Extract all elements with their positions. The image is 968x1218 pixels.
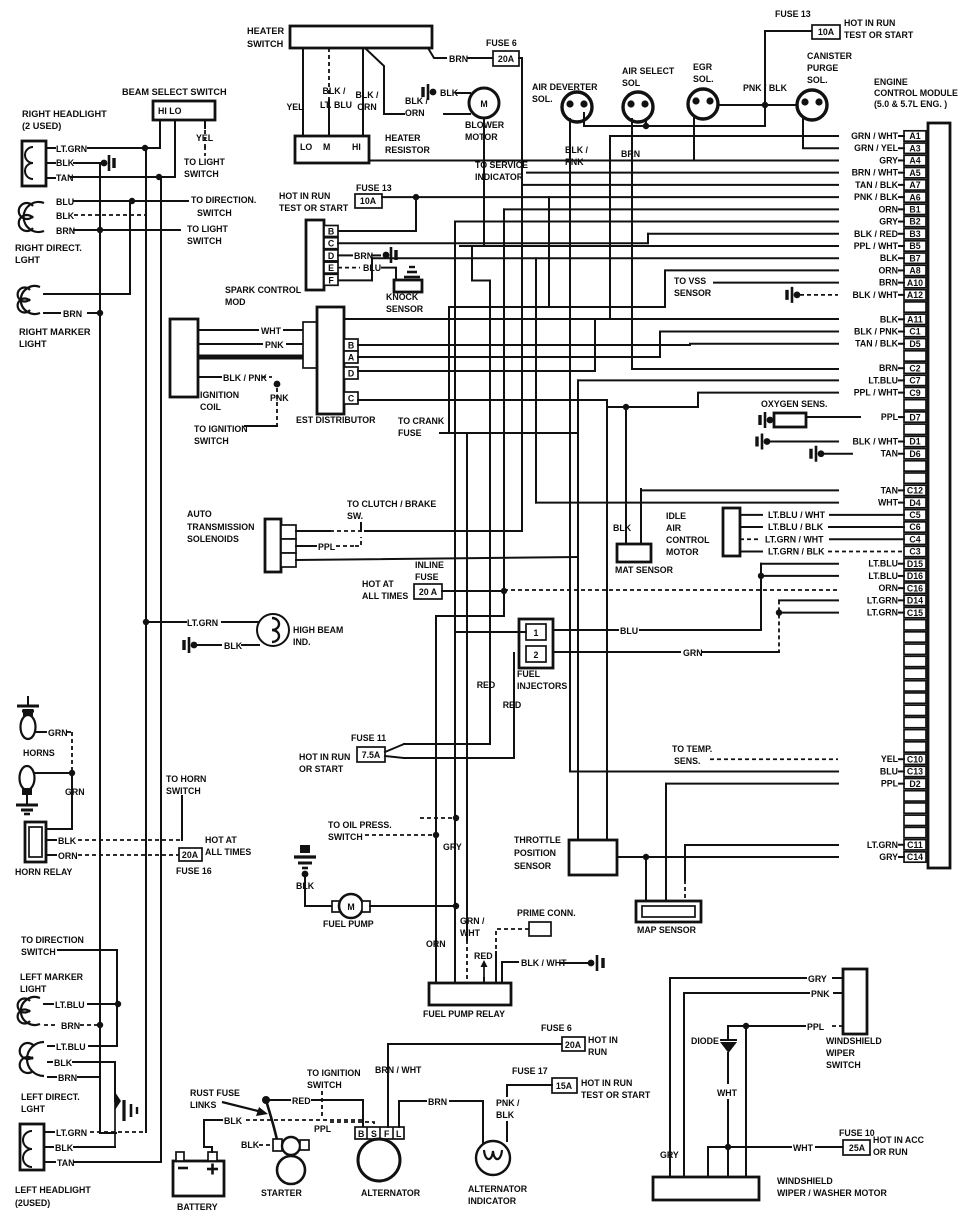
- ECM pin box row 42 blank: [904, 644, 926, 654]
- ground BLK/WHT D1: [764, 438, 771, 445]
- wire BLK to B7: [338, 279, 372, 281]
- svg-text:D15: D15: [907, 559, 923, 569]
- svg-text:CANISTER: CANISTER: [807, 51, 853, 61]
- svg-text:TO TEMP.: TO TEMP.: [672, 744, 712, 754]
- svg-text:OXYGEN SENS.: OXYGEN SENS.: [761, 399, 827, 409]
- svg-text:HOT IN ACC: HOT IN ACC: [873, 1135, 925, 1145]
- svg-text:GRY: GRY: [660, 1150, 679, 1160]
- ECM pin box row 49 blank: [904, 730, 926, 740]
- svg-text:TO SERVICE: TO SERVICE: [475, 160, 528, 170]
- svg-text:LT.BLU / BLK: LT.BLU / BLK: [768, 522, 824, 532]
- ECM pin box row 1 A3: [904, 143, 926, 153]
- svg-text:B2: B2: [909, 217, 920, 227]
- svg-text:SWITCH: SWITCH: [328, 832, 363, 842]
- wire BLK left direct to ground: [48, 1061, 52, 1063]
- svg-text:BRN: BRN: [63, 309, 82, 319]
- svg-text:RED: RED: [503, 700, 522, 710]
- svg-text:B3: B3: [909, 229, 920, 239]
- svg-text:INDICATOR: INDICATOR: [475, 172, 524, 182]
- svg-text:BRN / WHT: BRN / WHT: [852, 168, 899, 178]
- svg-text:WHT: WHT: [793, 1143, 814, 1153]
- svg-text:A7: A7: [909, 180, 920, 190]
- wire bus injector GRN x779: [778, 600, 780, 652]
- svg-text:BLK /: BLK /: [565, 145, 589, 155]
- ECM pin box row 50 blank: [904, 742, 926, 752]
- EST pin B: [344, 339, 358, 351]
- svg-text:C9: C9: [909, 388, 920, 398]
- svg-text:A: A: [348, 353, 355, 363]
- svg-text:B5: B5: [909, 241, 920, 251]
- wire PPL wiper: [830, 1025, 843, 1027]
- svg-text:TAN: TAN: [881, 449, 898, 459]
- wire BRN air select to C2: [632, 368, 838, 370]
- svg-text:GRN / YEL: GRN / YEL: [854, 143, 898, 153]
- wire WHT coil to EST: [198, 329, 258, 331]
- wire PPL/WHT to C9: [698, 393, 838, 407]
- wire TAN to C12: [641, 489, 838, 491]
- EST pin D: [344, 367, 358, 379]
- wire MAT TAN up to C12 line: [640, 489, 642, 544]
- svg-text:A5: A5: [909, 168, 920, 178]
- horn relay: [25, 822, 46, 862]
- svg-text:FUSE 10: FUSE 10: [839, 1128, 875, 1138]
- svg-text:AIR DEVERTER: AIR DEVERTER: [532, 82, 598, 92]
- svg-text:(2 USED): (2 USED): [22, 121, 61, 131]
- svg-text:E: E: [328, 263, 334, 273]
- svg-text:PNK /: PNK /: [496, 1098, 520, 1108]
- horn upper: [27, 696, 29, 706]
- left direct light: [20, 1042, 44, 1076]
- svg-text:IND.: IND.: [293, 637, 311, 647]
- svg-text:SOLENOIDS: SOLENOIDS: [187, 534, 239, 544]
- svg-text:SWITCH: SWITCH: [247, 39, 284, 49]
- ground blk/wht relay: [588, 960, 595, 967]
- ECM pin box row 19 C2: [904, 363, 926, 373]
- svg-text:BRN: BRN: [58, 1073, 77, 1083]
- wire MAT BLK up and over: [626, 407, 698, 544]
- svg-text:WIPER / WASHER MOTOR: WIPER / WASHER MOTOR: [777, 1188, 887, 1198]
- svg-text:BLK: BLK: [880, 314, 899, 324]
- svg-text:A6: A6: [909, 192, 920, 202]
- wire EST B to D5: [358, 344, 838, 345]
- wire canister purge to A3 GRN/YEL: [803, 118, 838, 148]
- svg-text:GRN / WHT: GRN / WHT: [851, 131, 899, 141]
- ECM pin box row 51 C10: [904, 754, 926, 764]
- svg-text:D: D: [328, 251, 334, 261]
- svg-text:LIGHT: LIGHT: [20, 984, 47, 994]
- alternator: [355, 1127, 404, 1139]
- wire fuse13 down to spark B pin: [338, 197, 416, 231]
- svg-text:SOL.: SOL.: [693, 74, 714, 84]
- ECM pin box row 16 C1: [904, 326, 926, 336]
- svg-text:TO CRANK: TO CRANK: [398, 416, 445, 426]
- svg-text:YEL: YEL: [196, 133, 214, 143]
- svg-text:LT.GRN: LT.GRN: [56, 144, 87, 154]
- svg-text:BLK / RED: BLK / RED: [854, 229, 898, 239]
- svg-text:SWITCH: SWITCH: [187, 236, 222, 246]
- wire WHT diode down: [727, 1053, 729, 1083]
- svg-text:RESISTOR: RESISTOR: [385, 145, 430, 155]
- svg-text:INLINE: INLINE: [415, 560, 444, 570]
- wire GRN injector 2: [553, 651, 680, 653]
- knock sensor: [394, 280, 422, 292]
- svg-text:WHT: WHT: [460, 928, 481, 938]
- svg-text:WHT: WHT: [878, 498, 899, 508]
- svg-text:WHT: WHT: [261, 326, 282, 336]
- ground stack left lights: [114, 1101, 116, 1147]
- ECM pin box row 57 blank: [904, 827, 926, 837]
- wire PNK to ignition switch: [276, 388, 278, 426]
- ECM pin box row 34 C3: [904, 546, 926, 556]
- svg-text:D6: D6: [909, 449, 920, 459]
- wire bus x467 crank to relay: [466, 433, 468, 940]
- wire blower bottom down bus x484: [483, 118, 485, 246]
- ECM pin box row 22 blank: [904, 400, 926, 410]
- svg-text:TO IGNITION: TO IGNITION: [194, 424, 248, 434]
- EST distributor: [303, 322, 317, 368]
- wire BLK/RED to B3: [647, 234, 649, 243]
- wire PNK wiper: [834, 992, 843, 994]
- ECM pin box row 17 D5: [904, 339, 926, 349]
- svg-text:BRN: BRN: [879, 278, 898, 288]
- svg-text:FUSE 17: FUSE 17: [512, 1066, 548, 1076]
- svg-text:EST DISTRIBUTOR: EST DISTRIBUTOR: [296, 415, 376, 425]
- svg-text:IDLE: IDLE: [666, 511, 686, 521]
- ECM pin box row 3 A5: [904, 167, 926, 177]
- svg-text:THROTTLE: THROTTLE: [514, 835, 561, 845]
- wire ORN to B1: [504, 208, 838, 210]
- ECM pin box row 14 blank: [904, 302, 926, 312]
- svg-text:ALTERNATOR: ALTERNATOR: [468, 1184, 528, 1194]
- wire LT.GRN/WHT to C4: [740, 538, 760, 540]
- svg-text:D7: D7: [909, 412, 920, 422]
- ECM pin box row 40 blank: [904, 620, 926, 630]
- svg-text:LT. BLU: LT. BLU: [320, 100, 352, 110]
- svg-text:ENGINE: ENGINE: [874, 77, 908, 87]
- svg-text:HORNS: HORNS: [23, 748, 55, 758]
- ECM pin box row 4 A7: [904, 180, 926, 190]
- ground fuel pump BLK: [300, 845, 310, 853]
- svg-text:BEAM SELECT SWITCH: BEAM SELECT SWITCH: [122, 87, 227, 97]
- svg-text:PNK: PNK: [565, 157, 584, 167]
- svg-text:BLK: BLK: [54, 1058, 73, 1068]
- svg-text:MAP SENSOR: MAP SENSOR: [637, 925, 697, 935]
- svg-text:(5.0 & 5.7L ENG. ): (5.0 & 5.7L ENG. ): [874, 99, 947, 109]
- svg-text:LT.BLU / WHT: LT.BLU / WHT: [768, 510, 826, 520]
- alternator indicator: [476, 1141, 510, 1175]
- svg-text:TO DIRECTION: TO DIRECTION: [21, 935, 84, 945]
- wire coil secondary thick: [198, 355, 317, 360]
- ECM pin box row 15 A11: [904, 314, 926, 324]
- wire LT.BLU left marker: [44, 1003, 53, 1005]
- svg-text:BRN: BRN: [56, 226, 75, 236]
- svg-text:B1: B1: [909, 205, 920, 215]
- svg-text:S: S: [371, 1129, 377, 1139]
- ground + BLK/WHT A12: [794, 291, 801, 298]
- ECM pin box row 48 blank: [904, 717, 926, 727]
- wire EST D to A11: [358, 319, 595, 371]
- svg-text:A1: A1: [909, 131, 920, 141]
- svg-text:RED: RED: [292, 1096, 311, 1106]
- wire HI pin down: [159, 120, 161, 148]
- wire BRN L pin to alternator indicator: [399, 1101, 426, 1127]
- wire bus x607 MAT to TPS: [606, 400, 608, 840]
- wire GRN horn upper: [36, 731, 46, 733]
- svg-text:C15: C15: [907, 608, 923, 618]
- svg-text:C1: C1: [909, 327, 920, 337]
- ECM pin box row 33 C4: [904, 534, 926, 544]
- svg-text:OR RUN: OR RUN: [873, 1147, 908, 1157]
- svg-text:FUSE 13: FUSE 13: [775, 9, 811, 19]
- svg-text:M: M: [347, 902, 354, 912]
- svg-text:F: F: [328, 275, 334, 285]
- ECM pin box row 10 B7: [904, 253, 926, 263]
- wire LT.BLU left direct: [48, 1045, 54, 1047]
- svg-text:BLK: BLK: [55, 1143, 74, 1153]
- svg-text:LT.GRN: LT.GRN: [867, 595, 898, 605]
- svg-text:WINDSHIELD: WINDSHIELD: [777, 1176, 833, 1186]
- svg-text:HORN RELAY: HORN RELAY: [15, 867, 72, 877]
- spark control pin B: [324, 226, 338, 237]
- svg-text:BRN: BRN: [879, 363, 898, 373]
- svg-text:C12: C12: [907, 486, 923, 496]
- svg-text:25A: 25A: [849, 1143, 866, 1153]
- wire WHT to D4: [535, 258, 537, 502]
- wire LT.GRN to D14: [779, 599, 838, 601]
- svg-text:SOL.: SOL.: [807, 75, 828, 85]
- svg-text:ORN: ORN: [405, 108, 425, 118]
- wire YEL heater: [302, 48, 304, 136]
- svg-text:LT.GRN: LT.GRN: [56, 1128, 87, 1138]
- wire rust fuse link diagonal: [266, 1100, 277, 1140]
- svg-text:ORN: ORN: [878, 583, 898, 593]
- svg-text:PPL: PPL: [881, 412, 899, 422]
- ECM pin box row 38 D14: [904, 595, 926, 605]
- svg-text:TO OIL PRESS.: TO OIL PRESS.: [328, 820, 392, 830]
- svg-text:BATTERY: BATTERY: [177, 1202, 218, 1212]
- svg-text:C: C: [328, 239, 335, 249]
- svg-text:LT.BLU: LT.BLU: [868, 375, 898, 385]
- svg-text:2: 2: [534, 650, 539, 660]
- ECM pin box row 2 A4: [904, 155, 926, 165]
- svg-text:FUEL PUMP RELAY: FUEL PUMP RELAY: [423, 1009, 505, 1019]
- svg-text:L: L: [396, 1129, 402, 1139]
- svg-text:STARTER: STARTER: [261, 1188, 303, 1198]
- svg-text:HOT IN RUN: HOT IN RUN: [299, 752, 350, 762]
- svg-text:SW.: SW.: [347, 511, 363, 521]
- svg-text:POSITION: POSITION: [514, 848, 556, 858]
- ECM pin box row 56 blank: [904, 815, 926, 825]
- svg-text:LT.GRN: LT.GRN: [867, 840, 898, 850]
- MAP sensor: [636, 901, 701, 922]
- svg-text:BLK: BLK: [224, 1116, 243, 1126]
- svg-text:D4: D4: [909, 498, 920, 508]
- spark control pin F: [324, 274, 338, 285]
- svg-text:SENSOR: SENSOR: [674, 288, 712, 298]
- wire BRN left direct: [48, 1076, 56, 1078]
- svg-text:20 A: 20 A: [419, 587, 438, 597]
- svg-text:GRN: GRN: [48, 728, 68, 738]
- svg-text:GRY: GRY: [879, 852, 898, 862]
- svg-text:C6: C6: [909, 522, 920, 532]
- ECM pin box row 0 A1: [904, 131, 926, 141]
- wire LT.BLU to C7: [578, 379, 838, 381]
- svg-text:PRIME CONN.: PRIME CONN.: [517, 908, 576, 918]
- svg-text:OR START: OR START: [299, 764, 344, 774]
- svg-text:FUSE 6: FUSE 6: [541, 1023, 572, 1033]
- ECM pin box row 43 blank: [904, 656, 926, 666]
- svg-text:BLK / WHT: BLK / WHT: [853, 290, 899, 300]
- wire air diverter/select to fuse13 feed: [584, 113, 765, 126]
- svg-text:LO: LO: [300, 142, 312, 152]
- fuse 16: [179, 848, 202, 861]
- wire EGR left pin down to GRY line: [693, 117, 695, 160]
- svg-text:FUSE 16: FUSE 16: [176, 866, 212, 876]
- horn lower: [20, 766, 35, 790]
- svg-text:20A: 20A: [182, 850, 199, 860]
- svg-text:RIGHT HEADLIGHT: RIGHT HEADLIGHT: [22, 109, 107, 119]
- svg-text:TEST OR START: TEST OR START: [279, 203, 349, 213]
- ECM pin box row 28 blank: [904, 473, 926, 483]
- wire ORN to A8: [449, 270, 838, 307]
- svg-text:TEST OR START: TEST OR START: [581, 1090, 651, 1100]
- svg-text:BLK / PNK: BLK / PNK: [854, 327, 899, 337]
- svg-text:TAN: TAN: [57, 1158, 74, 1168]
- wire GRN horn lower to relay: [35, 772, 72, 774]
- svg-text:BLK /: BLK /: [323, 86, 347, 96]
- svg-text:BLU: BLU: [363, 263, 381, 273]
- svg-text:D16: D16: [907, 571, 923, 581]
- svg-text:BLU: BLU: [620, 626, 638, 636]
- svg-text:C13: C13: [907, 767, 923, 777]
- svg-text:RUN: RUN: [588, 1047, 607, 1057]
- ECM pin box row 9 B5: [904, 241, 926, 251]
- svg-text:D5: D5: [909, 339, 920, 349]
- svg-text:TO LIGHT: TO LIGHT: [187, 224, 229, 234]
- svg-text:B7: B7: [909, 253, 920, 263]
- svg-text:LGHT: LGHT: [15, 255, 40, 265]
- svg-text:BLK: BLK: [56, 158, 75, 168]
- svg-text:C2: C2: [909, 363, 920, 373]
- svg-text:HI: HI: [352, 142, 361, 152]
- svg-text:D14: D14: [907, 596, 923, 606]
- svg-text:DIODE: DIODE: [691, 1036, 719, 1046]
- wire TAN left headlight: [44, 1161, 55, 1163]
- wire PNK/BLK fuse 17 to indicator: [507, 1085, 552, 1096]
- ECM pin box row 46 blank: [904, 693, 926, 703]
- svg-text:FUSE: FUSE: [398, 428, 422, 438]
- svg-text:B: B: [348, 341, 354, 351]
- high beam indicator: [257, 614, 289, 646]
- ECM pin box row 29 C12: [904, 485, 926, 495]
- svg-text:RIGHT MARKER: RIGHT MARKER: [19, 327, 91, 337]
- svg-text:A3: A3: [909, 143, 920, 153]
- ground TAN D6: [818, 450, 825, 457]
- svg-text:BLK: BLK: [880, 253, 899, 263]
- svg-text:BLK / WHT: BLK / WHT: [853, 437, 899, 447]
- svg-text:TO DIRECTION.: TO DIRECTION.: [191, 195, 256, 205]
- wire LT.BLU/BLK to C6: [740, 526, 762, 528]
- svg-text:LT.BLU: LT.BLU: [56, 1042, 86, 1052]
- svg-text:SWITCH: SWITCH: [21, 947, 56, 957]
- svg-text:MOD: MOD: [225, 297, 246, 307]
- ECM pin box row 44 blank: [904, 668, 926, 678]
- svg-text:LT.GRN / WHT: LT.GRN / WHT: [765, 534, 824, 544]
- wire PNK coil to EST: [198, 343, 262, 345]
- svg-text:SENS.: SENS.: [674, 756, 700, 766]
- svg-text:EGR: EGR: [693, 62, 713, 72]
- svg-text:HIGH BEAM: HIGH BEAM: [293, 625, 343, 635]
- wire mid pin down: [174, 120, 176, 177]
- svg-text:PPL: PPL: [881, 779, 899, 789]
- wire ORN horn relay to fuse 16: [46, 854, 56, 856]
- svg-text:ORN: ORN: [58, 851, 78, 861]
- svg-text:20A: 20A: [565, 1040, 582, 1050]
- svg-text:BLK: BLK: [224, 641, 243, 651]
- wire BRN to fuse 6: [428, 48, 446, 58]
- svg-text:B: B: [358, 1129, 364, 1139]
- svg-text:TAN / BLK: TAN / BLK: [855, 339, 898, 349]
- svg-text:BRN: BRN: [354, 251, 373, 261]
- wire PPL trans: [296, 545, 316, 547]
- windshield wiper switch: [843, 969, 867, 1034]
- svg-text:GRN: GRN: [65, 787, 85, 797]
- svg-text:TO CLUTCH / BRAKE: TO CLUTCH / BRAKE: [347, 499, 436, 509]
- svg-text:TO VSS: TO VSS: [674, 276, 706, 286]
- svg-text:BLU: BLU: [56, 197, 74, 207]
- wire bus x504 upper: [503, 209, 505, 591]
- svg-text:SOL: SOL: [622, 78, 641, 88]
- ECM pin box row 20 C7: [904, 375, 926, 385]
- ECM pin box row 21 C9: [904, 387, 926, 397]
- wire PPL to D2: [666, 783, 838, 785]
- spark control pin D: [324, 250, 338, 261]
- wire PPL down from dot: [745, 1026, 747, 1178]
- ECM pin box row 12 A10: [904, 277, 926, 287]
- svg-text:ALL TIMES: ALL TIMES: [205, 847, 251, 857]
- ECM pin box row 32 C6: [904, 522, 926, 532]
- svg-text:1: 1: [534, 628, 539, 638]
- wire BLU marker up to BLU bus: [44, 201, 130, 294]
- svg-text:FUEL: FUEL: [517, 669, 541, 679]
- svg-text:FUSE 6: FUSE 6: [486, 38, 517, 48]
- svg-text:ALL TIMES: ALL TIMES: [362, 591, 408, 601]
- ECM pin box row 30 D4: [904, 497, 926, 507]
- svg-text:PURGE: PURGE: [807, 63, 838, 73]
- ECM pin box row 58 C11: [904, 840, 926, 850]
- svg-text:MOTOR: MOTOR: [666, 547, 699, 557]
- svg-text:A4: A4: [909, 156, 920, 166]
- svg-text:LT.GRN / BLK: LT.GRN / BLK: [768, 546, 825, 556]
- svg-text:BLK /: BLK /: [405, 96, 429, 106]
- ECM pin box row 7 B2: [904, 216, 926, 226]
- wire GRN/WHT to A1: [609, 136, 611, 319]
- wire bus injector BLU x761: [760, 564, 762, 630]
- svg-text:A10: A10: [907, 278, 923, 288]
- svg-text:HOT IN RUN: HOT IN RUN: [581, 1078, 632, 1088]
- svg-text:A12: A12: [907, 290, 923, 300]
- svg-text:7.5A: 7.5A: [362, 750, 381, 760]
- ECM pin box row 52 C13: [904, 766, 926, 776]
- ECM pin box row 18 blank: [904, 351, 926, 361]
- wire RED injector 2 feed: [404, 653, 514, 758]
- svg-text:GRY: GRY: [808, 974, 827, 984]
- svg-text:SWITCH: SWITCH: [197, 208, 232, 218]
- wire spark C pin: [338, 242, 648, 244]
- ignition coil: [170, 319, 198, 397]
- svg-text:RUST FUSE: RUST FUSE: [190, 1088, 240, 1098]
- svg-text:SWITCH: SWITCH: [194, 436, 229, 446]
